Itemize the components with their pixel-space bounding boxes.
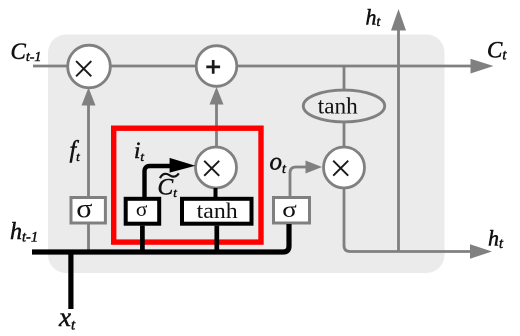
wire circle2 to tanh box [214, 188, 218, 197]
f arrowhead [82, 88, 96, 106]
multiply symbol 1 [76, 61, 91, 76]
cell state line C [33, 65, 471, 68]
tanh branch wire [343, 66, 346, 91]
output multiply symbol [333, 161, 348, 176]
output h wire [344, 188, 471, 252]
plus gate circle [196, 46, 237, 87]
tanh box [182, 199, 252, 224]
LSTM cell body [48, 35, 445, 274]
f gate wire below box [87, 224, 90, 250]
svg-text:ht-1: ht-1 [10, 219, 38, 246]
sigma2 riser [140, 226, 145, 250]
input multiply symbol [204, 161, 219, 176]
plus arrowhead [210, 87, 224, 105]
svg-text:ht: ht [366, 5, 382, 30]
C_t arrowhead [471, 59, 494, 74]
svg-text:σ: σ [282, 197, 297, 222]
sigma box i [126, 199, 160, 224]
h_t up arrowhead [391, 9, 406, 31]
multiply gate circle 1 [68, 45, 111, 88]
h_t right arrowhead [470, 244, 492, 258]
svg-text:tanh: tanh [318, 94, 358, 119]
i gate black wire [145, 166, 171, 197]
h_t-1 input bus [32, 224, 289, 252]
svg-text:σ: σ [76, 194, 92, 223]
svg-text:Ct-1: Ct-1 [11, 39, 42, 65]
i black arrowhead [170, 158, 196, 173]
output multiply circle [324, 147, 365, 188]
svg-text:ht: ht [488, 226, 504, 253]
f gate wire up [87, 104, 90, 197]
o arrowhead [306, 161, 323, 174]
red highlight box [114, 128, 261, 242]
input multiply circle [196, 147, 237, 188]
tilde mark [160, 173, 179, 178]
tanh riser [214, 226, 219, 250]
svg-text:Ct: Ct [487, 38, 507, 64]
svg-text:σ: σ [136, 197, 148, 221]
o gate wire [290, 167, 306, 197]
plus symbol [206, 60, 220, 74]
wire multiply2 to plus [215, 104, 218, 149]
svg-text:tanh: tanh [197, 198, 238, 223]
x_t riser [68, 252, 73, 309]
wire ellipse to output multiply [343, 122, 346, 148]
sigma box o [274, 198, 310, 224]
sigma box f [71, 198, 105, 224]
h_t vertical line [397, 29, 400, 252]
tanh ellipse [303, 90, 384, 122]
